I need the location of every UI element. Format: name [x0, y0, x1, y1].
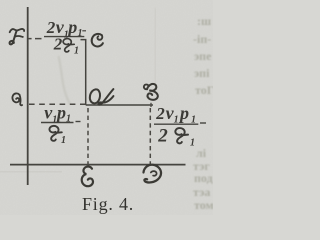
- node label G (script): [12, 93, 22, 105]
- dashed line G level: [29, 103, 88, 105]
- svg-text:лі: лі: [196, 146, 207, 160]
- y-axis: [27, 7, 29, 185]
- node label E (script): [82, 167, 93, 187]
- svg-text:том: том: [194, 198, 213, 212]
- wire: solid horizontal A-B: [86, 104, 153, 106]
- svg-text:тоГ: тоГ: [195, 83, 213, 97]
- svg-text:1: 1: [66, 113, 71, 124]
- svg-text:тэа: тэа: [193, 185, 210, 199]
- svg-text:под: под: [194, 171, 213, 185]
- node label C (script): [92, 34, 103, 47]
- svg-text:2: 2: [157, 126, 168, 147]
- svg-text:2: 2: [155, 104, 165, 123]
- bleed-through text right edge top: [193, 14, 214, 97]
- right fraction 2v1p1 / 2S1: [154, 103, 206, 148]
- tick below B: [150, 103, 152, 107]
- node label F (script): [10, 29, 25, 45]
- svg-text:p: p: [66, 17, 77, 37]
- svg-text:1: 1: [174, 115, 179, 126]
- paper background: [0, 0, 213, 215]
- svg-text:1: 1: [74, 46, 79, 57]
- dashed vertical from B to D: [149, 108, 151, 164]
- bleed-through text right edge bottom: [193, 146, 214, 212]
- svg-text:2: 2: [53, 35, 63, 54]
- fraktur S of right fraction: [175, 128, 188, 143]
- svg-text:1: 1: [78, 28, 83, 39]
- faint bleed-through streak inside box: [59, 56, 71, 104]
- fraktur S of left fraction: [49, 126, 61, 141]
- node label B (script): [144, 84, 158, 100]
- x-axis: [10, 164, 186, 166]
- svg-text:эпі: эпі: [194, 66, 210, 80]
- svg-text::ш: :ш: [197, 14, 211, 28]
- paper grain: [0, 0, 213, 215]
- svg-text:p: p: [178, 103, 189, 123]
- svg-text:1: 1: [61, 135, 66, 146]
- wire: solid corner from fraction to C down to A: [81, 40, 86, 105]
- faint scratch line: [0, 170, 62, 173]
- faint bleed-through streak right area: [154, 8, 157, 88]
- svg-text:Fig. 4.: Fig. 4.: [82, 194, 134, 214]
- left fraction v1p1 / S1: [41, 102, 81, 146]
- dashed vertical from A to E: [87, 108, 89, 165]
- svg-text:1: 1: [191, 115, 196, 126]
- svg-text:p: p: [55, 102, 66, 122]
- dashed line F level: [28, 38, 42, 40]
- fraktur S of top fraction: [63, 39, 74, 52]
- svg-text:эпе: эпе: [194, 49, 212, 63]
- top fraction 2v1p1 / 2S1: [44, 17, 86, 56]
- svg-text:1: 1: [190, 137, 195, 148]
- node label D (script): [143, 165, 161, 183]
- node label A (script): [90, 89, 114, 105]
- svg-text:-іп-: -іп-: [193, 32, 211, 46]
